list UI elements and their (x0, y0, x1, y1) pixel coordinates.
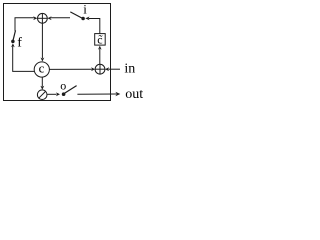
svg-text:in: in (124, 62, 135, 77)
svg-text:o: o (60, 78, 66, 92)
cell state node c (34, 61, 49, 78)
svg-text:out: out (125, 87, 143, 102)
adder node S2 (input sum, right) (95, 64, 105, 74)
svg-text:f: f (17, 36, 22, 51)
svg-text:c̃: c̃ (97, 32, 102, 46)
wire: candidate box to input gate (arrow left) (85, 17, 100, 34)
output gate switch lever (64, 86, 76, 94)
input gate switch lever (70, 12, 81, 18)
output squashing unit (37, 90, 47, 100)
input gate contact dot (81, 17, 85, 21)
wire: cell feedback up into forget gate (arrow up) (11, 43, 34, 71)
wire: output line to out (arrow right) (77, 92, 120, 96)
wire: squashing unit to output gate (arrow right) (47, 92, 60, 96)
wire: forget loop into adder S1 (corner, arrow right) (15, 16, 37, 31)
output gate contact dot (62, 92, 66, 96)
svg-text:i: i (83, 1, 87, 16)
wire: adder S1 down into cell c (arrow down) (41, 23, 45, 61)
forget gate contact dot (11, 40, 15, 44)
wire: input adder up into candidate box (arrow up) (98, 46, 102, 65)
svg-text:c: c (39, 61, 45, 76)
wire: in to input adder S2 (arrow left) (105, 67, 120, 71)
wire: input gate to adder S1 (arrow left) (47, 16, 70, 20)
candidate box c~ (95, 32, 106, 46)
wire: cell c to input adder S2 (arrow right) (49, 67, 95, 71)
memory block boundary (4, 4, 111, 101)
forget gate switch lever (13, 30, 15, 40)
wire: cell c down into squashing unit (arrow down) (40, 77, 44, 90)
adder node S1 (cell update sum, top) (38, 13, 48, 23)
